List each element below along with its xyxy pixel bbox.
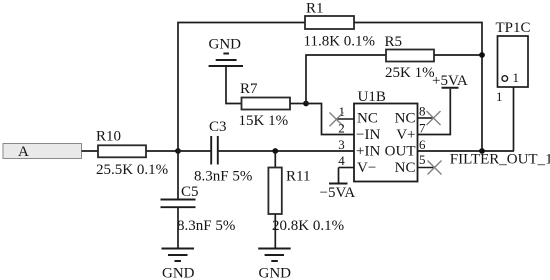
capacitor C5	[161, 200, 196, 208]
wire A to R10	[82, 150, 99, 152]
svg-text:5: 5	[419, 152, 426, 167]
junction R5 on right bus	[479, 52, 485, 58]
svg-text:C5: C5	[181, 184, 199, 200]
svg-text:15K 1%: 15K 1%	[239, 113, 289, 129]
svg-text:V+: V+	[396, 127, 415, 143]
svg-text:NC: NC	[357, 111, 378, 127]
svg-text:OUT: OUT	[385, 144, 416, 160]
wire input node up and over to R1	[178, 23, 305, 152]
svg-text:1: 1	[496, 89, 503, 104]
svg-text:1: 1	[513, 70, 520, 85]
svg-text:C3: C3	[209, 119, 227, 135]
op-amp U1B body	[354, 104, 418, 182]
svg-text:−IN: −IN	[356, 127, 380, 143]
svg-text:R10: R10	[96, 129, 121, 145]
pin 1 stub	[336, 118, 355, 120]
svg-text:R1: R1	[306, 1, 324, 17]
svg-text:−5VA: −5VA	[320, 185, 356, 201]
svg-text:2: 2	[338, 121, 345, 136]
svg-text:25.5K 0.1%: 25.5K 0.1%	[96, 162, 168, 178]
power +5VA bar	[442, 87, 459, 89]
wire pin 6 OUT to test point column	[418, 150, 515, 152]
junction feedback node	[303, 101, 309, 107]
ground below R11	[258, 249, 291, 280]
test point TP1C body	[498, 36, 529, 87]
svg-text:8.3nF 5%: 8.3nF 5%	[177, 218, 235, 234]
svg-text:8.3nF 5%: 8.3nF 5%	[194, 169, 252, 185]
resistor R11	[268, 168, 281, 215]
ground above R7	[209, 37, 244, 67]
junction R11 tap node	[272, 148, 278, 154]
svg-text:+IN: +IN	[356, 144, 380, 160]
svg-text:GND: GND	[259, 266, 292, 280]
resistor R10	[98, 145, 146, 157]
pin 4 stub	[339, 167, 355, 169]
pin 8 no-connect cross	[427, 111, 441, 125]
wire ground to R7	[226, 66, 242, 104]
pin 8 stub	[418, 117, 434, 119]
wire input node down to C5	[177, 151, 179, 200]
pin 5 stub	[418, 167, 435, 169]
TP1C pad circle	[502, 76, 508, 82]
wire C3 to op-amp pin 3	[218, 150, 354, 152]
svg-text:20.8K 0.1%: 20.8K 0.1%	[272, 218, 344, 234]
svg-text:NC: NC	[395, 111, 416, 127]
resistor R7	[242, 98, 291, 110]
junction input node	[175, 148, 181, 154]
svg-text:NC: NC	[395, 160, 416, 176]
svg-text:8: 8	[419, 104, 426, 119]
svg-text:11.8K 0.1%: 11.8K 0.1%	[304, 34, 376, 50]
power -5VA bar	[329, 183, 348, 185]
pin 1 no-connect cross	[330, 113, 344, 127]
wire R1 to right bus down to output node	[354, 23, 482, 152]
svg-text:6: 6	[419, 137, 426, 152]
svg-text:7: 7	[419, 121, 426, 136]
resistor R5	[386, 50, 434, 62]
wire C5 to ground	[177, 207, 179, 248]
wire R10 to input node	[146, 150, 178, 152]
wire feedback node up and over to R5	[306, 55, 386, 104]
wire R5 to right bus	[434, 54, 482, 56]
wire tap node down to R11	[274, 151, 276, 168]
wire output node up to TP1C	[513, 87, 515, 151]
svg-text:R7: R7	[240, 81, 258, 97]
svg-text:U1B: U1B	[358, 89, 386, 105]
capacitor C3	[211, 136, 218, 165]
svg-text:FILTER_OUT_1: FILTER_OUT_1	[450, 152, 550, 168]
svg-text:R11: R11	[286, 169, 310, 185]
svg-text:4: 4	[338, 153, 345, 168]
svg-text:R5: R5	[385, 34, 403, 50]
svg-text:V−: V−	[357, 160, 376, 176]
svg-text:GND: GND	[162, 266, 195, 280]
pin 5 no-connect cross	[428, 161, 442, 175]
svg-text:A: A	[18, 144, 29, 160]
resistor R1	[305, 16, 354, 29]
wire pin 4 down to -5VA	[338, 168, 340, 184]
svg-text:3: 3	[338, 137, 345, 152]
svg-text:TP1C: TP1C	[496, 20, 531, 36]
svg-text:+5VA: +5VA	[432, 73, 468, 89]
wire R11 to ground	[274, 214, 276, 248]
wire pin 7 to +5VA	[418, 89, 451, 135]
junction output node	[479, 148, 485, 154]
wire feedback node to pin 2	[306, 104, 354, 135]
wire R7 to feedback node	[290, 103, 306, 105]
svg-text:GND: GND	[209, 37, 242, 53]
ground below C5	[162, 249, 195, 280]
wire input node to C3	[178, 150, 211, 152]
svg-text:25K 1%: 25K 1%	[385, 65, 435, 81]
node A port symbol	[3, 144, 82, 161]
